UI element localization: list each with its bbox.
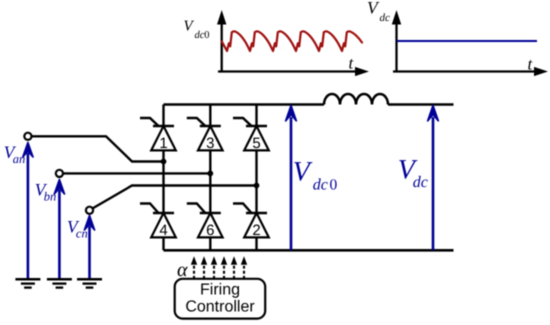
svg-text:0: 0 bbox=[330, 177, 338, 194]
svg-text:0: 0 bbox=[204, 30, 209, 41]
label Van bbox=[4, 142, 25, 166]
gate pulse arrow 3 bbox=[211, 256, 217, 279]
gate pulse arrow 2 bbox=[201, 256, 207, 279]
svg-text:Firing: Firing bbox=[200, 281, 240, 298]
svg-text:α: α bbox=[177, 259, 188, 281]
phase B wire bbox=[63, 172, 210, 174]
svg-text:an: an bbox=[13, 152, 26, 166]
ground B bbox=[47, 279, 72, 287]
gate pulse arrow 1 bbox=[191, 256, 197, 279]
plot2 vertical axis bbox=[392, 10, 401, 72]
svg-text:3: 3 bbox=[206, 135, 214, 152]
node B junction dot bbox=[207, 171, 213, 177]
plot2 flat Vdc line bbox=[397, 40, 537, 42]
thyristor T3 bbox=[187, 118, 223, 152]
label Vbn bbox=[35, 180, 56, 204]
svg-text:dc: dc bbox=[313, 177, 328, 194]
thyristor T1 bbox=[140, 118, 176, 152]
thyristor T4 bbox=[140, 204, 176, 240]
thyristor T6 bbox=[187, 204, 223, 240]
firing controller text bbox=[185, 281, 255, 315]
bottom DC rail bbox=[164, 249, 454, 252]
svg-text:6: 6 bbox=[206, 222, 214, 239]
label Vdc bbox=[398, 155, 428, 191]
ground C bbox=[77, 279, 102, 287]
svg-text:dc: dc bbox=[413, 174, 428, 191]
gate pulse arrow 5 bbox=[231, 256, 237, 279]
plot1 vertical axis bbox=[217, 10, 226, 72]
svg-text:4: 4 bbox=[159, 222, 167, 239]
node C junction dot bbox=[254, 183, 260, 189]
svg-text:dc: dc bbox=[380, 12, 391, 24]
DC arrow Vdc bbox=[428, 106, 439, 251]
top DC rail bbox=[164, 103, 454, 106]
plot1 horizontal axis bbox=[218, 67, 369, 76]
thyristor T5 bbox=[233, 118, 269, 152]
svg-text:V: V bbox=[293, 157, 313, 188]
svg-text:dc: dc bbox=[195, 30, 205, 41]
svg-text:cn: cn bbox=[76, 226, 88, 240]
label Vdc0 bbox=[293, 157, 338, 194]
source arrow Vcn bbox=[84, 216, 94, 279]
gate pulse arrow 4 bbox=[221, 256, 227, 279]
svg-text:bn: bn bbox=[44, 190, 57, 204]
leg column b (x=210.3) wires bbox=[209, 105, 211, 251]
phase B terminal circle bbox=[56, 170, 63, 177]
source arrow Van bbox=[23, 143, 33, 279]
label Vcn bbox=[67, 216, 88, 240]
leg column c (x=256.5) wires bbox=[255, 105, 257, 251]
ground A bbox=[15, 279, 40, 287]
svg-text:1: 1 bbox=[159, 135, 167, 152]
node A junction dot bbox=[161, 159, 167, 165]
thyristor T2 bbox=[233, 204, 269, 240]
svg-text:Controller: Controller bbox=[185, 298, 255, 315]
gate pulse arrow 6 bbox=[241, 256, 247, 279]
phase A terminal circle bbox=[24, 133, 31, 140]
phase A wire bbox=[32, 136, 164, 161]
plot1 Vdc0 ripple waveform bbox=[222, 31, 362, 51]
phase C terminal circle bbox=[86, 207, 93, 214]
plot2 horizontal axis bbox=[393, 67, 548, 76]
svg-text:5: 5 bbox=[252, 135, 260, 152]
DC arrow Vdc0 bbox=[286, 106, 297, 251]
inductor L bbox=[324, 94, 388, 105]
source arrow Vbn bbox=[54, 180, 64, 279]
phase C wire bbox=[93, 186, 257, 209]
firing controller box bbox=[175, 279, 266, 319]
leg column a (x=163.5) wires bbox=[162, 105, 164, 251]
svg-text:2: 2 bbox=[252, 222, 260, 239]
